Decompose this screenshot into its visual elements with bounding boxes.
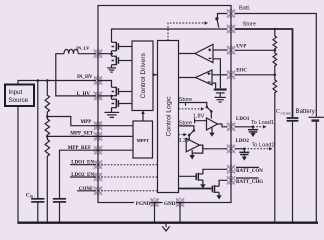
- pad MPP: [93, 121, 102, 130]
- transistor M4: [112, 99, 133, 108]
- wire control logic to Q2 gate: [179, 188, 213, 190]
- node LDO1 cap junction: [252, 126, 255, 129]
- pad LDO1: [226, 122, 235, 131]
- pad LDO2: [226, 144, 235, 153]
- svg-text:Control Logic: Control Logic: [166, 96, 173, 137]
- arrow control logic to control drivers: [153, 73, 158, 77]
- wire UVP net comparator to pad: [213, 49, 227, 51]
- node IN_LV midpoint: [110, 52, 113, 55]
- wire stub CONF: [77, 190, 96, 192]
- reference source VREF: [214, 90, 227, 97]
- svg-text:Input: Input: [9, 89, 23, 96]
- svg-text:MPP_REF: MPP_REF: [68, 146, 91, 151]
- input source V1: [5, 85, 34, 107]
- dashed arrow to Load2: [244, 147, 272, 150]
- node L_HV midpoint: [110, 95, 113, 98]
- wire M1-M2 midpoint to IN_LV pad: [98, 51, 112, 56]
- dashed enable line to S3: [179, 133, 188, 136]
- pad L_HV: [93, 91, 102, 100]
- wire MPP pad to MPPT: [96, 125, 133, 127]
- wire Batt pad to switch: [218, 14, 228, 19]
- ground below M2: [107, 65, 116, 72]
- wire Store rail (internal): [112, 29, 228, 42]
- switch S1 Store-Batt: [215, 17, 219, 28]
- svg-text:Store: Store: [243, 21, 256, 27]
- wire GND pad to bus: [179, 203, 181, 223]
- pad PGND: [150, 198, 159, 207]
- svg-text:LDO1: LDO1: [236, 117, 250, 122]
- svg-text:in: in: [30, 195, 33, 199]
- wire U1 inverting input to reference: [213, 59, 220, 89]
- IC boundary box: [98, 6, 231, 203]
- pad Store: [226, 24, 235, 33]
- label BATT_CON with overline: [236, 167, 263, 174]
- svg-text:Source: Source: [9, 97, 29, 104]
- resistor R3 (MPP divider bottom): [45, 136, 49, 222]
- wire input source top riser to IN_HV rail: [18, 81, 96, 85]
- ground bus: [17, 221, 318, 223]
- label GND: [163, 199, 177, 207]
- resistor R5 (UVP-EOC ladder): [273, 50, 277, 75]
- resistor R1 (MPP divider top): [45, 81, 49, 117]
- label BATT_CHG with overline: [236, 178, 263, 185]
- pad MPP_REF: [93, 146, 102, 155]
- MPPT block: [133, 121, 153, 158]
- arrow MPPT to control drivers: [141, 111, 145, 122]
- wire stub LDO1_EN: [70, 164, 96, 166]
- switch S3 LDO2 enable: [188, 129, 195, 140]
- pad IN_HV: [93, 76, 102, 85]
- transistor M1: [112, 42, 133, 51]
- svg-text:BATT_CHG: BATT_CHG: [236, 180, 263, 185]
- wire comparator U1 output to control logic: [179, 53, 196, 55]
- feedback loop LDO2: [192, 145, 203, 153]
- wire Store to LDO2 switch: [179, 126, 194, 130]
- ground below C_L1: [250, 132, 255, 137]
- wire EOC net comparator to pad: [212, 74, 227, 76]
- node LDO2 cap junction: [243, 148, 246, 151]
- svg-text:EOC: EOC: [236, 68, 247, 73]
- svg-text:STORE: STORE: [281, 112, 292, 116]
- wire Q2 drain to BATT_CHG pad: [219, 180, 227, 186]
- capacitor C_ref on MPP_REF: [53, 199, 66, 223]
- pad BATT_CHG: [226, 176, 235, 185]
- pad Batt: [226, 9, 235, 18]
- wire LDO2 op-amp output to pad: [200, 145, 228, 149]
- svg-text:PGND: PGND: [136, 201, 151, 207]
- pad IN_LV: [93, 49, 102, 58]
- wire LDO2 pad to load2: [235, 148, 244, 150]
- wire control logic to Q1 gate: [179, 175, 197, 177]
- switch S2 LDO1 enable: [206, 106, 213, 119]
- ground below M4: [104, 108, 119, 118]
- wire Batt pad to battery: [235, 14, 316, 117]
- ground below LDO1 op-amp: [209, 127, 214, 137]
- svg-text:LDO2_EN: LDO2_EN: [71, 173, 94, 178]
- capacitor C_L1: [248, 127, 258, 132]
- wire PGND pad to bus: [154, 203, 156, 223]
- wire IN_HV pad to M3 drain: [98, 81, 112, 88]
- node UVP tap: [274, 49, 277, 52]
- reference tick 1.8V to op-amp: [195, 118, 207, 123]
- capacitor Cin: [31, 81, 44, 223]
- svg-text:LDO2: LDO2: [236, 139, 250, 144]
- svg-text:CONF: CONF: [79, 187, 93, 192]
- wire MPP_REF pad to reference capacitor: [60, 150, 97, 198]
- earth arrow symbol: [162, 224, 169, 232]
- svg-text:UVP: UVP: [236, 44, 246, 49]
- resistor R4 (UVP ladder top): [273, 29, 277, 50]
- ground below C_L2: [242, 155, 247, 161]
- svg-text:BATT_CON: BATT_CON: [236, 169, 263, 174]
- transistor M2: [112, 56, 133, 65]
- transistor Q1 (BATT_CON): [196, 173, 203, 181]
- svg-text:MPP: MPP: [80, 120, 91, 125]
- capacitor C_store: [287, 118, 299, 222]
- node ladder top on Store wire: [274, 28, 277, 31]
- comparator U1 (UVP): [195, 44, 213, 62]
- node MPP_SET tap: [46, 135, 49, 138]
- op-amp LDO2: [186, 138, 199, 151]
- wire stub LDO2_EN: [70, 176, 96, 178]
- svg-text:L_HV: L_HV: [77, 92, 91, 97]
- node junction Cin on input rail: [37, 79, 40, 82]
- wire MPP tap to MPP pad: [47, 117, 96, 126]
- pad GND: [175, 198, 184, 207]
- node MPP tap: [46, 115, 49, 118]
- wire LDO1 pad to load1: [235, 126, 253, 128]
- wire Q1 drain to BATT_CON pad: [203, 169, 227, 172]
- resistor R6 (ladder bottom): [273, 75, 277, 223]
- svg-text:MPP_SET: MPP_SET: [70, 131, 93, 136]
- node junction divider on input rail: [46, 79, 49, 82]
- svg-text:C: C: [276, 109, 280, 115]
- inductor L1 between L_HV and IN_LV: [56, 49, 96, 96]
- transistor M3: [112, 87, 133, 96]
- ground below LDO2 op-amp: [190, 153, 195, 160]
- svg-text:Batt.: Batt.: [239, 6, 251, 12]
- pad EOC: [226, 70, 235, 79]
- svg-text:LDO1_EN: LDO1_EN: [71, 161, 94, 166]
- resistor R2 (MPP divider mid): [45, 117, 49, 137]
- wire MPP_SET pad to MPPT: [96, 135, 133, 137]
- pad LDO2_EN: [93, 172, 102, 181]
- wire U2 inverting input to reference: [212, 83, 216, 88]
- transistor Q2 (BATT_CHG): [212, 185, 219, 193]
- wire MPP_SET tap to pad: [47, 135, 96, 137]
- dashed wire LDO1_EN to control logic: [98, 164, 158, 166]
- pad BATT_CON: [226, 165, 235, 174]
- comparator U2 (EOC): [196, 70, 213, 85]
- wire Store pad to C_store: [235, 29, 293, 117]
- ground below Q1: [200, 180, 205, 189]
- wire Store to LDO1 switch: [179, 103, 207, 107]
- node EOC tap: [274, 74, 277, 77]
- dashed control line to battery switch: [168, 21, 208, 40]
- pad CONF: [93, 186, 102, 195]
- svg-text:Control Drivers: Control Drivers: [140, 53, 147, 99]
- pad MPP_SET: [93, 132, 102, 141]
- wire input source bottom to ground bus: [17, 106, 19, 222]
- svg-text:IN_LV: IN_LV: [76, 46, 90, 51]
- wire LDO1 op-amp output to pad: [218, 124, 228, 127]
- svg-text:To Load1: To Load1: [251, 120, 274, 126]
- battery B1: [309, 117, 324, 222]
- pad LDO1_EN: [93, 160, 102, 169]
- wire EOC pad to ladder: [235, 74, 275, 76]
- svg-text:To Load2: To Load2: [252, 143, 275, 149]
- dashed arrow to Load1: [253, 125, 267, 128]
- wire UVP pad to ladder: [235, 49, 275, 51]
- wire M3-M4 midpoint to L_HV pad: [98, 96, 112, 99]
- svg-text:GND: GND: [164, 201, 176, 207]
- svg-text:MPPT: MPPT: [137, 138, 150, 143]
- label PGND: [134, 199, 151, 207]
- op-amp LDO1: [207, 118, 218, 130]
- dashed enable line to S2: [179, 107, 205, 110]
- wire MPP_REF pad to MPPT: [96, 149, 133, 151]
- dashed wire CONF to control logic: [98, 190, 158, 192]
- svg-text:Battery: Battery: [296, 108, 316, 115]
- ground below VREF: [215, 97, 226, 102]
- svg-text:IN_HV: IN_HV: [77, 75, 93, 80]
- ground below Q2: [216, 192, 221, 199]
- dashed wire LDO2_EN to control logic: [98, 176, 158, 178]
- control drivers block: [132, 41, 153, 111]
- wire comparator U2 output to control logic: [179, 77, 196, 79]
- capacitor C_L2: [239, 149, 249, 155]
- control logic block: [158, 41, 179, 193]
- pad UVP: [226, 46, 235, 55]
